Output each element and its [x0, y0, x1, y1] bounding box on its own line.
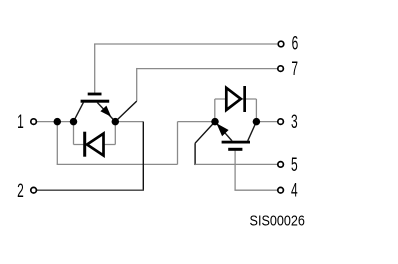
wire Q2 aux emitter diagonal — [195, 122, 215, 144]
transistor Q2 collector leg — [248, 122, 257, 141]
pin 2 label — [17, 181, 24, 201]
transistor Q1 gate bar — [88, 93, 102, 96]
transistor Q2 gate bar — [228, 148, 242, 151]
wire riser to Q2 emitter — [177, 122, 179, 165]
terminal pin 5 circle — [278, 162, 284, 168]
transistor Q1 emitter arrow — [100, 106, 111, 117]
svg-text:SIS00026: SIS00026 — [250, 213, 305, 229]
wire D1 right vertical — [114, 122, 116, 145]
diode D1 triangle — [87, 134, 104, 156]
svg-text:1: 1 — [17, 113, 24, 133]
wire D1 left vertical — [73, 122, 75, 145]
diode D1 cathode bar — [83, 132, 86, 157]
svg-text:4: 4 — [291, 181, 298, 201]
junction node dot A — [54, 118, 62, 126]
pin 5 label — [291, 155, 298, 175]
wire to Q2 emitter node — [178, 121, 216, 123]
junction node dot C (Q1 emitter) — [112, 118, 120, 126]
transistor Q1 emitter leg — [97, 102, 115, 121]
wire pin1 horizontal — [37, 121, 74, 123]
wire pin2 horizontal — [37, 189, 144, 191]
terminal pin 3 circle — [278, 119, 284, 125]
wire D2 right vertical — [255, 99, 257, 122]
junction node dot B (Q1 collector) — [70, 118, 78, 126]
pin 6 label — [292, 34, 299, 54]
pin 7 label — [291, 60, 298, 80]
wire node1 vertical down — [56, 122, 58, 165]
terminal pin 1 circle — [31, 119, 37, 125]
wire D2 horizontal — [215, 98, 257, 100]
pin 4 label — [291, 181, 298, 201]
junction node dot E (Q2 collector) — [253, 118, 261, 126]
diode D2 cathode bar — [243, 86, 246, 112]
diode D2 triangle — [226, 88, 241, 110]
wire pin7 vertical — [136, 68, 138, 101]
wire pin7 horizontal — [137, 68, 278, 70]
transistor Q1 body bar — [81, 100, 110, 103]
wire Q1 emitter to corner — [115, 121, 143, 123]
terminal pin 2 circle — [31, 187, 37, 193]
terminal pin 4 circle — [278, 187, 284, 193]
svg-text:6: 6 — [292, 34, 299, 54]
transistor Q1 collector leg — [74, 102, 84, 121]
wire Q1 gate vertical — [94, 44, 96, 93]
terminal pin 6 circle — [278, 41, 284, 47]
wire D2 left vertical — [214, 99, 216, 122]
wire Q2 aux emitter vertical — [194, 143, 196, 165]
junction node dot D (Q2 emitter) — [211, 118, 219, 126]
wire bottom bus horizontal — [57, 163, 178, 165]
pin 1 label — [17, 113, 24, 133]
svg-text:7: 7 — [291, 60, 298, 80]
transistor Q2 body bar — [222, 141, 250, 144]
pin 3 label — [291, 112, 298, 132]
wire Q2 gate vertical — [234, 151, 236, 191]
wire pin5 horizontal — [195, 163, 277, 165]
wire pin4 horizontal — [234, 189, 277, 191]
svg-text:3: 3 — [291, 112, 298, 132]
wire D1 horizontal — [74, 144, 116, 146]
svg-text:5: 5 — [291, 155, 298, 175]
terminal pin 7 circle — [278, 66, 284, 72]
figure number SIS00026 — [250, 213, 305, 229]
wire pin2 vertical — [142, 122, 144, 191]
wire pin3 horizontal — [256, 121, 277, 123]
transistor Q2 emitter arrow — [216, 123, 228, 136]
wire pin6 horizontal — [94, 43, 277, 45]
wire pin7 diagonal to Q1 emitter — [115, 101, 136, 122]
svg-text:2: 2 — [17, 181, 24, 201]
transistor Q2 emitter leg — [215, 122, 232, 141]
